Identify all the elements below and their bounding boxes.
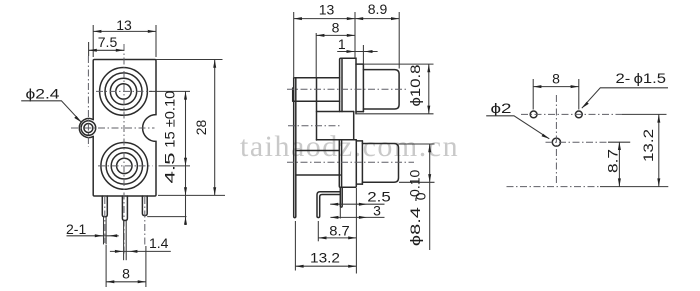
svg-text:3: 3 <box>373 203 381 219</box>
drill bottom solid extension <box>600 186 668 188</box>
svg-text:ϕ2: ϕ2 <box>491 100 512 116</box>
side body inner horizontal <box>295 100 340 102</box>
drill centerline horizontal middle <box>546 141 609 143</box>
pin 2 wires <box>123 221 125 261</box>
watermark taihaodz.com.cn <box>240 130 700 164</box>
centerline horizontal bottom circle <box>98 165 153 167</box>
bottom jack washer <box>356 141 362 184</box>
centerline horizontal top circle <box>96 90 152 92</box>
drill centerline vertical <box>555 95 557 185</box>
drill top solid extension 13.2 <box>622 113 667 115</box>
pin 3 centerline <box>144 197 146 247</box>
drill hole right phi1.5 <box>575 111 582 118</box>
dimension phi10.8 <box>363 63 433 65</box>
drill hole left phi1.5 <box>530 111 537 118</box>
svg-text:1.4: 1.4 <box>149 235 169 251</box>
pin 1 centerline <box>104 197 106 243</box>
side mid box <box>317 111 354 113</box>
side centerline bottom jack <box>287 161 414 163</box>
svg-text:ϕ10.8: ϕ10.8 <box>407 64 423 106</box>
svg-text:2- ϕ1.5: 2- ϕ1.5 <box>616 70 667 86</box>
svg-text:8: 8 <box>552 71 560 87</box>
side view left plate bump <box>292 88 294 101</box>
svg-text:1: 1 <box>338 36 346 52</box>
drill centerline horizontal top <box>521 113 622 115</box>
dimension 15 +-0.10 <box>149 90 190 92</box>
side body vertical edge <box>316 78 318 140</box>
svg-text:13: 13 <box>116 17 132 33</box>
svg-text:7.5: 7.5 <box>98 34 118 50</box>
svg-text:13.2: 13.2 <box>640 129 656 162</box>
top jack flange <box>340 58 356 114</box>
svg-text:8: 8 <box>122 266 130 282</box>
centerline vertical through circles <box>123 44 125 256</box>
middle pin extension <box>339 207 341 218</box>
svg-text:8.9: 8.9 <box>368 1 388 17</box>
front mount hole tab arc <box>79 119 93 138</box>
centerline horizontal small hole <box>71 127 155 129</box>
svg-text:2-1: 2-1 <box>66 221 86 237</box>
pin 1 body <box>102 196 107 217</box>
svg-text:13: 13 <box>319 2 335 18</box>
svg-text:15 ±0.10: 15 ±0.10 <box>162 90 178 147</box>
svg-text:-0.10: -0.10 <box>407 169 423 201</box>
top jack washer <box>356 64 363 112</box>
side centerline top jack <box>287 88 406 90</box>
svg-text:ϕ2.4: ϕ2.4 <box>26 86 60 102</box>
side centerline mount hole <box>288 125 341 127</box>
side body bottom edge <box>296 174 341 176</box>
dimension 28 right <box>156 59 223 61</box>
L bracket ground lug <box>317 192 340 218</box>
pin 3 body <box>142 196 147 216</box>
dimension phi8.4 tolerance <box>399 143 435 145</box>
bottom jack barrel <box>362 144 398 183</box>
side body top edge <box>295 77 340 79</box>
dimension 8 bottom <box>105 245 107 287</box>
middle contact pin <box>340 187 342 207</box>
bottom jack flange <box>339 140 356 188</box>
small mount hole phi2.4 <box>81 121 96 136</box>
dimension 13.2 drill <box>658 114 660 186</box>
top RCA connector circles <box>100 68 148 116</box>
svg-text:8: 8 <box>332 20 340 36</box>
dimension 8.7 drill <box>618 142 620 187</box>
svg-text:28: 28 <box>193 120 209 136</box>
svg-text:ϕ8.4: ϕ8.4 <box>407 207 423 246</box>
pin 1 wires <box>103 217 105 245</box>
drill middle solid extension 8.7 <box>608 141 630 143</box>
dimension 4.5 <box>184 187 187 195</box>
svg-text:8.7: 8.7 <box>604 149 620 173</box>
pin 2 body <box>122 196 127 221</box>
svg-text:8.7: 8.7 <box>329 222 350 238</box>
bottom RCA connector circles <box>101 143 148 190</box>
drill hole center phi2 <box>552 138 560 146</box>
pin shoulder extension line <box>147 216 186 218</box>
centerline vertical small hole <box>87 56 89 147</box>
svg-text:13.2: 13.2 <box>310 250 340 266</box>
side view left plate <box>293 78 295 217</box>
svg-text:4.5: 4.5 <box>162 152 178 183</box>
front view body outline <box>93 60 156 197</box>
top jack barrel <box>363 70 399 109</box>
drill bottom centerline <box>507 186 601 188</box>
side lower body box <box>296 150 340 152</box>
